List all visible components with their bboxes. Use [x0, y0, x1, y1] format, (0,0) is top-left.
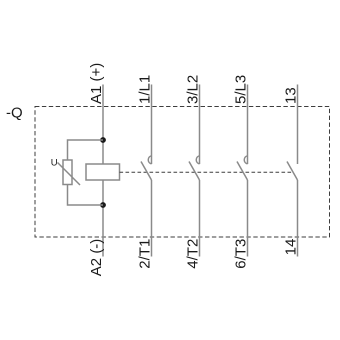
node top junction — [100, 137, 106, 143]
svg-text:A2 (-): A2 (-) — [88, 239, 105, 277]
contact pole 1/L1-2/T1 — [141, 85, 152, 257]
svg-text:4/T2: 4/T2 — [185, 239, 202, 269]
svg-text:6/T3: 6/T3 — [233, 239, 250, 269]
mechanical linkage (dashed actuator line) — [120, 171, 294, 173]
contact pole 5/L3-6/T3 — [237, 85, 248, 257]
auxiliary contact 13-14 — [287, 85, 298, 257]
wire varistor bottom branch — [68, 185, 104, 206]
varistor U (surge suppressor) — [63, 160, 72, 185]
svg-text:13: 13 — [283, 87, 300, 104]
coil K (operating coil rectangle) — [86, 164, 120, 180]
svg-text:2/T1: 2/T1 — [137, 239, 154, 269]
wire terminal A1 (coil top lead) — [102, 85, 104, 165]
svg-text:A1 (+): A1 (+) — [88, 63, 105, 104]
node bottom junction — [100, 202, 106, 208]
svg-text:1/L1: 1/L1 — [137, 75, 154, 104]
svg-text:5/L3: 5/L3 — [233, 75, 250, 104]
svg-text:3/L2: 3/L2 — [185, 75, 202, 104]
wire varistor top branch — [68, 140, 104, 160]
contactor outline -Q (dashed enclosure) — [35, 107, 330, 238]
svg-text:14: 14 — [283, 239, 300, 256]
svg-text:U: U — [51, 157, 58, 168]
svg-text:-Q: -Q — [6, 105, 23, 122]
contact pole 3/L2-4/T2 — [189, 85, 200, 257]
wire coil bottom lead to A2 — [102, 180, 104, 257]
